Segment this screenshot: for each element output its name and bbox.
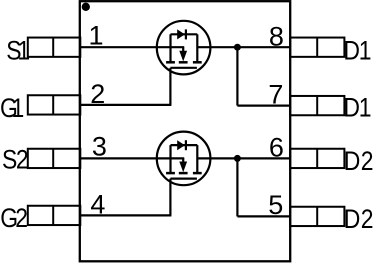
Q1 substrate arrow: [179, 51, 187, 62]
svg-text:1: 1: [17, 36, 30, 66]
svg-text:1: 1: [359, 93, 372, 123]
label S2: [2, 145, 29, 175]
Q1 gate lead: [169, 68, 171, 105]
svg-text:D: D: [344, 146, 361, 176]
mosfet Q1: [157, 21, 211, 105]
Q1 body diode cathode bar: [185, 29, 187, 39]
svg-text:1: 1: [359, 36, 372, 66]
junction node D1: [234, 44, 241, 51]
label D1 (pin 8): [343, 36, 371, 66]
svg-text:4: 4: [90, 190, 105, 220]
label G1: [0, 93, 24, 123]
Q2 substrate stub: [182, 158, 184, 163]
svg-text:1: 1: [12, 93, 25, 123]
svg-text:7: 7: [268, 80, 283, 110]
Q2 drain vertical: [196, 145, 198, 173]
Q1 drain vertical: [196, 34, 198, 62]
svg-text:3: 3: [92, 132, 107, 162]
Q2 channel bar body: [179, 172, 188, 175]
label G2: [0, 203, 28, 233]
svg-text:2: 2: [15, 203, 28, 233]
svg-text:2: 2: [361, 204, 373, 234]
pin box S1: [28, 38, 81, 57]
package outline U1: [80, 1, 290, 261]
Q2 substrate arrow: [179, 162, 187, 173]
svg-text:6: 6: [269, 133, 284, 163]
svg-text:D: D: [344, 204, 361, 234]
wire Q1 drain to pin8: [197, 46, 290, 48]
svg-text:2: 2: [361, 146, 373, 176]
wire pin4 to Q2 gate: [80, 214, 171, 216]
mosfet Q2: [157, 132, 211, 216]
wire node D2 down: [236, 158, 238, 216]
pin box G1: [28, 95, 81, 114]
pin box G2: [28, 206, 81, 225]
Q2 body diode bracket: [171, 144, 198, 146]
pin box D2 bottom (pin 5): [290, 207, 344, 226]
pin box D1 top (pin 8): [290, 38, 344, 57]
Q2 channel bar source: [166, 172, 175, 175]
Q1 body diode bracket: [171, 33, 198, 35]
svg-text:2: 2: [90, 79, 105, 109]
svg-text:D: D: [343, 36, 360, 66]
junction node D2: [234, 155, 241, 162]
Q2 channel bar drain: [193, 172, 202, 175]
svg-text:2: 2: [16, 145, 29, 175]
Q2 circle: [157, 132, 211, 186]
Q1 body diode triangle: [177, 29, 185, 39]
label D2 (pin 6): [344, 146, 373, 176]
Q1 channel bar source: [166, 61, 175, 64]
pin box D2 top (pin 6): [290, 149, 344, 168]
wire node D1 down: [236, 47, 238, 105]
svg-text:8: 8: [269, 22, 284, 52]
Q2 gate plate: [170, 178, 197, 180]
wire pin3 to Q2 source: [80, 157, 184, 159]
Q2 gate lead: [169, 179, 171, 216]
wire pin2 to Q1 gate: [80, 104, 171, 106]
Q1 channel bar body: [179, 61, 188, 64]
wire to pin7: [237, 104, 290, 106]
Q1 substrate stub: [182, 47, 184, 52]
Q1 source vertical: [169, 34, 171, 62]
pin 1 marker dot: [82, 3, 90, 11]
svg-text:5: 5: [268, 190, 283, 220]
wire pin1 to Q1 source: [80, 46, 184, 48]
wire Q2 drain to pin6: [197, 157, 290, 159]
Q1 channel bar drain: [193, 61, 202, 64]
label D1 (pin 7): [343, 93, 371, 123]
Q2 source vertical: [169, 145, 171, 173]
wire to pin5: [237, 215, 290, 217]
Q1 circle: [157, 21, 211, 75]
svg-text:1: 1: [89, 20, 104, 50]
pin box S2: [28, 149, 81, 168]
Q2 body diode triangle: [177, 140, 185, 150]
label S1: [6, 36, 30, 66]
svg-text:D: D: [343, 93, 360, 123]
pin box D1 bottom (pin 7): [290, 96, 344, 115]
label D2 (pin 5): [344, 204, 373, 234]
Q2 body diode cathode bar: [185, 140, 187, 150]
Q1 gate plate: [170, 67, 197, 69]
